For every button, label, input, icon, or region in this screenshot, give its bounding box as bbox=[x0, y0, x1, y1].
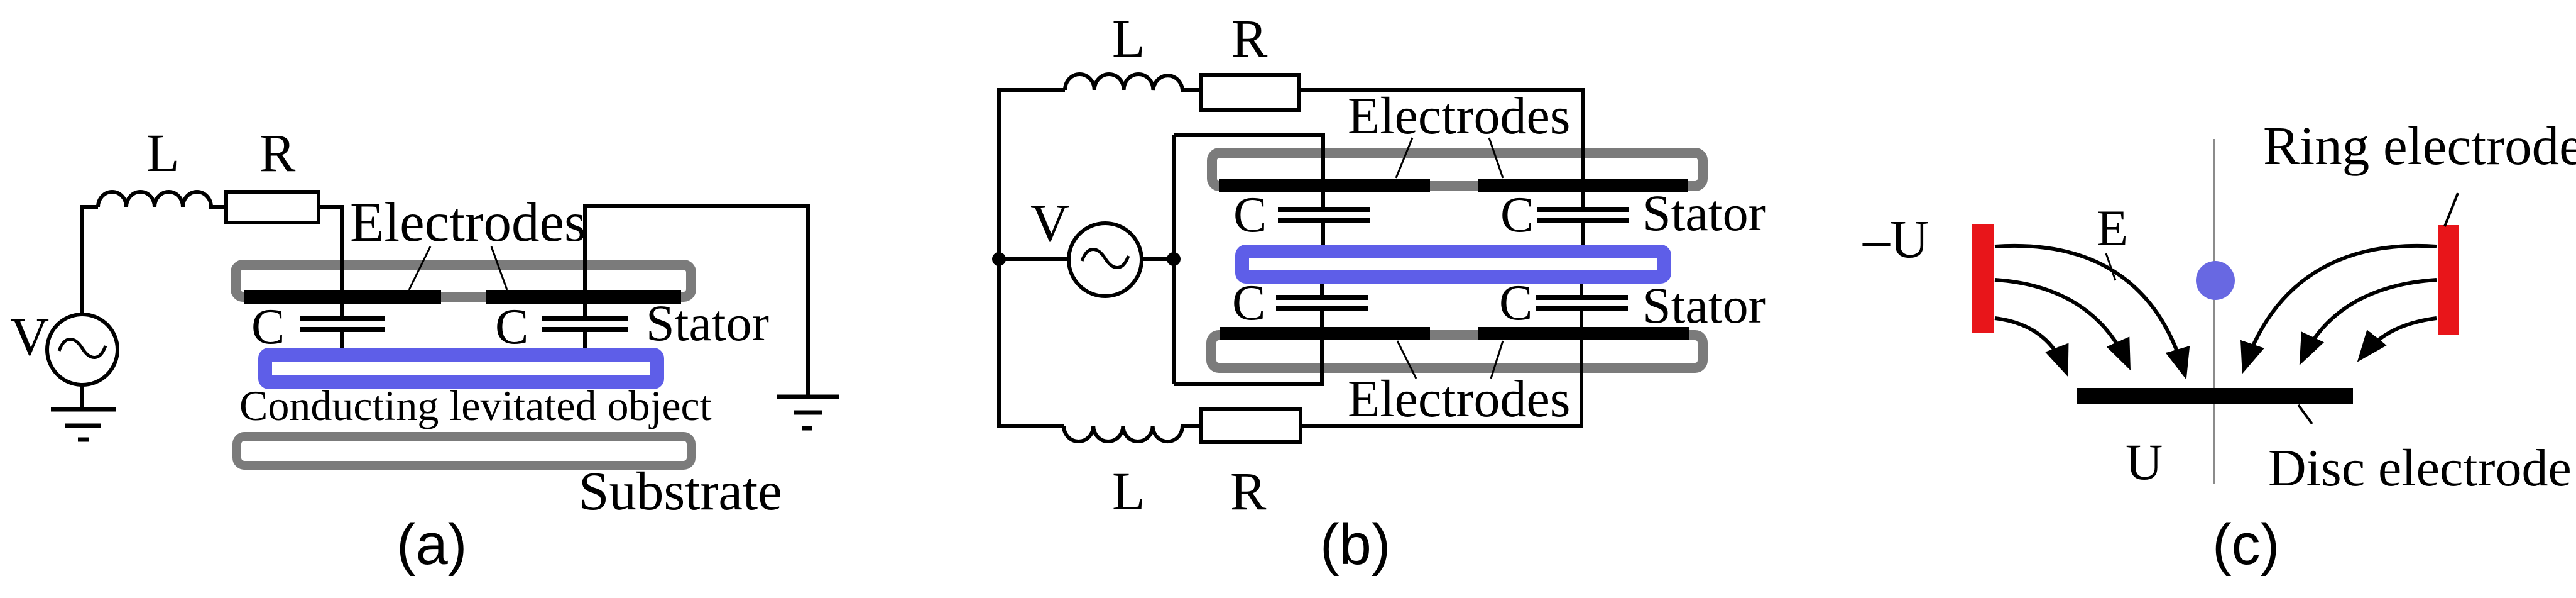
electrode bar bottom-right (b) bbox=[1478, 327, 1689, 340]
electrode bar left (a) bbox=[244, 290, 441, 304]
svg-text:Conducting levitated object: Conducting levitated object bbox=[239, 382, 712, 429]
ground (left) bbox=[51, 407, 116, 412]
svg-text:Electrodes: Electrodes bbox=[1348, 87, 1571, 145]
svg-text:R: R bbox=[1231, 8, 1268, 69]
stator bottom (b) bbox=[1211, 335, 1703, 368]
wire: resistor to electrode 1 and capacitor C1 bbox=[319, 207, 342, 317]
svg-text:V: V bbox=[1030, 192, 1069, 253]
resistor R1 bbox=[226, 192, 319, 223]
svg-text:Disc electrode: Disc electrode bbox=[2268, 439, 2572, 497]
svg-text:C: C bbox=[1232, 275, 1265, 331]
leader E to field line bbox=[2106, 253, 2115, 280]
wire: outer loop left side bbox=[999, 90, 1065, 259]
svg-text:Stator: Stator bbox=[1642, 277, 1766, 334]
resistor R bottom (b) bbox=[1201, 409, 1301, 442]
wire: inner loop (left capacitors) bbox=[1172, 135, 1176, 384]
svg-text:C: C bbox=[1500, 187, 1534, 243]
leader line bottom-right (b) bbox=[1491, 341, 1503, 379]
junction dot right bbox=[1167, 252, 1181, 266]
svg-text:Substrate: Substrate bbox=[579, 460, 782, 521]
leader line bottom-left (b) bbox=[1397, 341, 1416, 379]
disc electrode bar bbox=[2077, 388, 2353, 404]
svg-text:L: L bbox=[1112, 461, 1145, 521]
voltage source V2 bbox=[999, 257, 1067, 261]
electrode bar top-right (b) bbox=[1478, 179, 1688, 192]
svg-text:R: R bbox=[259, 123, 296, 183]
svg-text:Electrodes: Electrodes bbox=[350, 192, 586, 253]
substrate bbox=[237, 436, 691, 465]
capacitor C2 bbox=[542, 316, 628, 321]
wire: top resistor to right electrode column bbox=[1299, 90, 1583, 209]
levitated object (a) bbox=[265, 355, 657, 382]
svg-text:Electrodes: Electrodes bbox=[1348, 370, 1571, 428]
svg-text:Stator: Stator bbox=[1642, 184, 1766, 241]
electrode bar right (a) bbox=[486, 290, 681, 304]
stator top (b) bbox=[1212, 153, 1703, 186]
svg-text:(c): (c) bbox=[2212, 512, 2279, 577]
svg-text:C: C bbox=[1499, 275, 1532, 331]
junction dot left bbox=[992, 252, 1006, 266]
ring electrode left bbox=[1972, 224, 1994, 333]
field line right middle bbox=[2302, 280, 2437, 360]
svg-text:V: V bbox=[10, 306, 49, 367]
PANEL C bbox=[1862, 115, 2576, 577]
wire: V- down to ground bbox=[80, 386, 84, 409]
wire: electrode 2 to right ground bbox=[585, 206, 808, 397]
wire: bottom resistor to right electrode column bbox=[1301, 311, 1581, 426]
svg-text:U: U bbox=[2126, 433, 2163, 490]
svg-text:L: L bbox=[146, 123, 180, 183]
leader Disc electrode to bar bbox=[2298, 405, 2312, 424]
PANEL B bbox=[992, 8, 1766, 577]
svg-text:(a): (a) bbox=[396, 512, 467, 577]
inductor L bottom (b) bbox=[1064, 426, 1201, 441]
electrode bar top-left (b) bbox=[1219, 179, 1430, 192]
inductor L top (b) bbox=[1065, 74, 1201, 90]
leader line top-right (b) bbox=[1489, 138, 1503, 178]
svg-text:E: E bbox=[2097, 199, 2128, 257]
svg-text:C: C bbox=[1233, 187, 1267, 243]
field line right bottom bbox=[2361, 318, 2437, 357]
svg-text:Stator: Stator bbox=[646, 294, 769, 352]
capacitor C top-left (b) bbox=[1278, 207, 1370, 212]
svg-text:L: L bbox=[1112, 8, 1145, 69]
svg-text:C: C bbox=[251, 299, 285, 355]
wire: V to right junction bbox=[1142, 257, 1174, 261]
leader line to electrode 2 bbox=[491, 246, 507, 290]
capacitor C bottom-right (b) bbox=[1536, 295, 1628, 300]
levitated object (b) bbox=[1242, 252, 1664, 277]
axis line (c) bbox=[2213, 139, 2215, 484]
ground (right) bbox=[777, 395, 839, 399]
inductor L1 bbox=[98, 192, 226, 207]
leader line to electrode 1 bbox=[409, 246, 430, 290]
leader line top-left (b) bbox=[1396, 138, 1412, 178]
field line left bottom bbox=[1995, 318, 2066, 371]
electrode bar bottom-left (b) bbox=[1220, 327, 1430, 340]
wire: V+ up to inductor bbox=[82, 207, 98, 313]
PANEL A bbox=[10, 123, 839, 577]
ring electrode right bbox=[2438, 225, 2459, 335]
field line left top bbox=[1995, 246, 2185, 374]
capacitor C top-right (b) bbox=[1537, 207, 1629, 212]
svg-text:Ring electrode: Ring electrode bbox=[2263, 115, 2576, 176]
svg-text:R: R bbox=[1230, 461, 1267, 521]
capacitor C bottom-left (b) bbox=[1276, 295, 1368, 300]
blue particle bbox=[2196, 261, 2235, 300]
svg-text:C: C bbox=[495, 299, 528, 355]
field line right top bbox=[2244, 246, 2437, 368]
field line left middle bbox=[1995, 280, 2128, 365]
resistor R top (b) bbox=[1201, 75, 1299, 110]
capacitor C1 bbox=[300, 316, 385, 321]
svg-text:(b): (b) bbox=[1320, 512, 1390, 577]
svg-text:–U: –U bbox=[1862, 209, 1929, 269]
stator (a) bbox=[236, 265, 691, 297]
wire: outer loop left bottom bbox=[999, 259, 1064, 426]
leader Ring electrode to bar bbox=[2445, 193, 2458, 226]
voltage source V1 bbox=[47, 314, 117, 385]
